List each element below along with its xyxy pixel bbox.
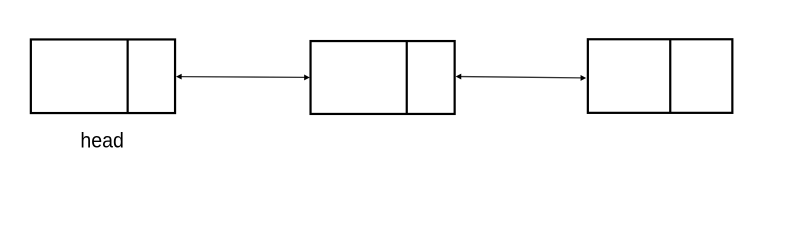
- svg-text:head: head: [80, 129, 124, 153]
